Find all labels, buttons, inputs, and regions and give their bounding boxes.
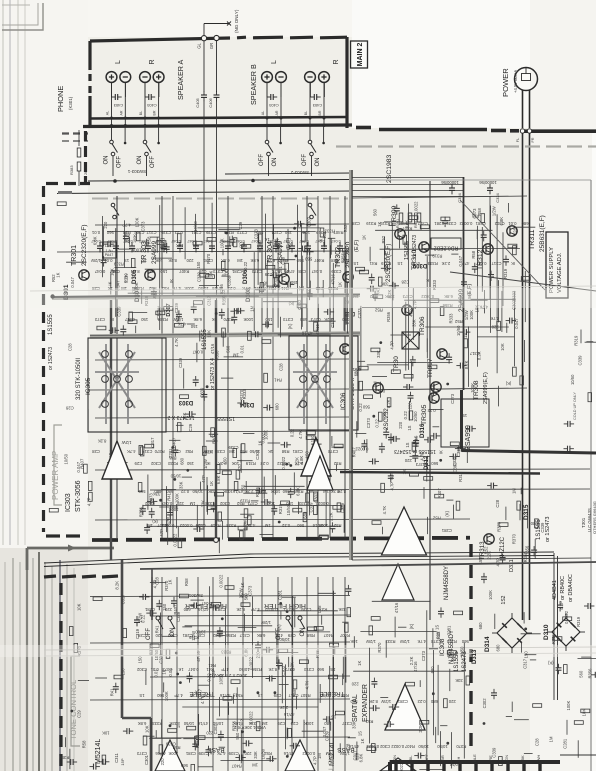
svg-text:8.2K: 8.2K <box>131 269 140 274</box>
svg-text:1M: 1M <box>232 352 238 357</box>
svg-text:TONE CONTROL: TONE CONTROL <box>69 680 78 740</box>
svg-text:BR: BR <box>153 110 157 115</box>
svg-text:R52: R52 <box>51 274 56 282</box>
svg-text:R407: R407 <box>231 764 242 769</box>
svg-text:680: 680 <box>179 457 184 465</box>
svg-text:150: 150 <box>459 413 467 418</box>
svg-text:1S2473 X 2: 1S2473 X 2 <box>167 414 194 420</box>
svg-text:0.01: 0.01 <box>91 230 100 235</box>
svg-text:+4.5V 80mA: +4.5V 80mA <box>513 70 518 93</box>
svg-text:C373: C373 <box>162 667 173 672</box>
svg-text:10000/56: 10000/56 <box>479 180 497 185</box>
svg-text:4D4B41: 4D4B41 <box>552 580 558 600</box>
svg-text:680: 680 <box>430 699 438 704</box>
svg-text:8.2K: 8.2K <box>268 667 277 672</box>
svg-text:R356: R356 <box>588 668 593 679</box>
svg-text:D313: D313 <box>472 649 478 664</box>
svg-text:C317: C317 <box>341 721 352 726</box>
svg-text:10K: 10K <box>206 330 211 338</box>
svg-text:560: 560 <box>431 461 439 466</box>
svg-text:4.7P: 4.7P <box>389 341 394 350</box>
svg-text:OFF: OFF <box>117 156 123 168</box>
svg-text:C373: C373 <box>237 230 248 235</box>
svg-text:R356: R356 <box>551 633 556 644</box>
svg-text:(K): (K) <box>274 238 279 244</box>
svg-text:47/16: 47/16 <box>331 273 336 284</box>
svg-text:C373: C373 <box>94 317 105 322</box>
svg-text:C339: C339 <box>178 357 183 368</box>
svg-text:(NG ONLY): (NG ONLY) <box>234 9 239 33</box>
svg-text:4.7P: 4.7P <box>313 756 318 765</box>
svg-text:R319: R319 <box>503 268 508 279</box>
svg-text:150: 150 <box>186 461 194 466</box>
svg-text:C339: C339 <box>540 522 545 533</box>
svg-text:10/50: 10/50 <box>170 473 181 478</box>
svg-text:1/2W: 1/2W <box>491 206 496 216</box>
svg-text:MAIN 2: MAIN 2 <box>357 43 364 67</box>
svg-text:1M: 1M <box>373 381 378 387</box>
svg-text:R356: R356 <box>386 311 391 322</box>
svg-text:C317: C317 <box>491 261 502 266</box>
svg-text:10K: 10K <box>233 721 241 726</box>
svg-text:0.0022: 0.0022 <box>281 456 286 469</box>
svg-text:2.2K: 2.2K <box>441 261 450 266</box>
svg-text:IC306: IC306 <box>340 392 347 410</box>
svg-text:2.2K: 2.2K <box>486 551 491 560</box>
svg-text:0.047: 0.047 <box>201 601 212 606</box>
svg-text:IK: IK <box>319 238 324 242</box>
svg-text:PA47: PA47 <box>105 253 114 257</box>
svg-text:47/16: 47/16 <box>315 323 320 334</box>
svg-text:IC305: IC305 <box>85 377 92 395</box>
svg-text:GL: GL <box>197 43 202 49</box>
svg-text:220: 220 <box>408 402 413 410</box>
svg-text:C339: C339 <box>214 449 225 454</box>
svg-text:320 STK-1050II: 320 STK-1050II <box>76 358 82 400</box>
svg-text:0.047: 0.047 <box>70 276 75 287</box>
svg-text:R319: R319 <box>223 230 234 235</box>
svg-text:8.2K: 8.2K <box>369 699 378 704</box>
svg-text:RE: RE <box>488 755 493 761</box>
svg-text:C28: C28 <box>65 405 73 410</box>
svg-text:560: 560 <box>235 732 240 740</box>
svg-text:OFF: OFF <box>259 154 265 166</box>
svg-text:D314: D314 <box>484 636 491 652</box>
svg-text:4.7P: 4.7P <box>174 693 183 698</box>
svg-text:2.2K: 2.2K <box>294 461 303 466</box>
svg-text:8.2K: 8.2K <box>476 351 481 360</box>
svg-text:2SA999: 2SA999 <box>465 425 472 450</box>
svg-text:C373: C373 <box>357 308 362 319</box>
svg-text:C373: C373 <box>431 639 442 644</box>
svg-text:R41: R41 <box>110 688 115 696</box>
svg-text:2.2K: 2.2K <box>418 724 423 733</box>
svg-text:C29: C29 <box>134 461 142 466</box>
svg-text:33K: 33K <box>411 319 416 327</box>
svg-text:25B631(E,F): 25B631(E,F) <box>539 215 546 252</box>
svg-text:560: 560 <box>362 404 370 409</box>
svg-text:680: 680 <box>275 403 280 411</box>
svg-text:0.0022: 0.0022 <box>264 607 277 612</box>
svg-text:R41: R41 <box>167 492 172 500</box>
svg-text:R52: R52 <box>436 631 441 639</box>
svg-text:33K: 33K <box>248 721 256 726</box>
svg-text:1/2W: 1/2W <box>261 620 271 625</box>
svg-text:ON: ON <box>392 755 397 761</box>
svg-text:10K: 10K <box>155 258 163 263</box>
svg-text:C281: C281 <box>397 699 408 704</box>
svg-text:1K: 1K <box>268 449 273 454</box>
svg-text:0.22: 0.22 <box>358 403 363 412</box>
svg-text:C281: C281 <box>168 448 173 459</box>
svg-text:1S: 1S <box>358 731 363 736</box>
svg-text:R370: R370 <box>164 580 169 591</box>
svg-text:R58: R58 <box>184 578 189 586</box>
svg-text:220: 220 <box>160 758 165 766</box>
svg-text:R41: R41 <box>369 261 377 266</box>
svg-text:R52: R52 <box>333 523 341 528</box>
svg-text:C302: C302 <box>482 698 487 709</box>
svg-text:R356: R356 <box>214 350 219 361</box>
svg-text:(K): (K) <box>505 381 511 386</box>
svg-text:R41: R41 <box>273 378 281 383</box>
svg-text:L: L <box>115 60 122 64</box>
svg-text:R333: R333 <box>448 313 453 324</box>
svg-text:10/50: 10/50 <box>437 744 448 749</box>
svg-text:150: 150 <box>342 317 350 322</box>
svg-text:C317: C317 <box>142 449 153 454</box>
svg-text:33K: 33K <box>455 678 463 683</box>
svg-text:15P: 15P <box>120 758 125 765</box>
svg-text:6.8K: 6.8K <box>193 317 202 322</box>
svg-text:C339: C339 <box>446 221 457 226</box>
svg-text:C403: C403 <box>146 103 156 108</box>
svg-text:680: 680 <box>154 489 162 494</box>
svg-text:C29: C29 <box>264 272 272 277</box>
svg-text:1K: 1K <box>337 282 342 287</box>
svg-text:100K: 100K <box>488 590 493 600</box>
svg-text:1K: 1K <box>431 384 436 389</box>
svg-text:100K: 100K <box>175 493 180 503</box>
svg-text:0.22: 0.22 <box>427 408 436 413</box>
svg-text:100K: 100K <box>131 247 141 252</box>
svg-text:C373: C373 <box>251 269 262 274</box>
svg-text:GN: GN <box>504 755 509 761</box>
svg-text:1S1555: 1S1555 <box>454 651 460 672</box>
svg-text:10K: 10K <box>231 461 239 466</box>
svg-text:220: 220 <box>186 258 194 263</box>
svg-text:150: 150 <box>111 269 119 274</box>
svg-text:4.7K: 4.7K <box>127 449 136 454</box>
svg-text:C373: C373 <box>421 650 426 661</box>
svg-text:10K: 10K <box>176 243 184 248</box>
svg-text:BK: BK <box>520 755 525 761</box>
svg-text:C281: C281 <box>182 633 193 638</box>
svg-text:R41: R41 <box>206 667 214 672</box>
svg-text:R356: R356 <box>59 755 70 760</box>
svg-text:BL: BL <box>304 111 308 115</box>
svg-text:100K: 100K <box>220 238 225 248</box>
svg-text:C28: C28 <box>495 499 500 507</box>
svg-text:C403: C403 <box>268 103 278 108</box>
svg-text:1/2W: 1/2W <box>340 751 350 756</box>
svg-text:H: H <box>456 756 461 759</box>
svg-text:10K: 10K <box>302 230 310 235</box>
svg-text:(K): (K) <box>287 323 292 329</box>
svg-text:C281: C281 <box>185 751 196 756</box>
svg-text:R370: R370 <box>206 253 211 264</box>
svg-text:0.22: 0.22 <box>243 261 248 270</box>
svg-text:C28: C28 <box>197 633 205 638</box>
svg-text:R52: R52 <box>264 751 272 756</box>
svg-text:1/2W: 1/2W <box>366 639 376 644</box>
svg-text:SPEAKER B: SPEAKER B <box>249 64 258 105</box>
svg-text:150: 150 <box>121 668 126 676</box>
svg-text:D312: D312 <box>424 455 430 470</box>
svg-text:1K: 1K <box>142 258 147 263</box>
svg-text:RD6.2EB2: RD6.2EB2 <box>434 245 459 251</box>
svg-text:33K: 33K <box>178 481 183 489</box>
svg-text:4.7K: 4.7K <box>217 751 226 756</box>
svg-text:0.0022: 0.0022 <box>564 610 569 623</box>
svg-text:R407: R407 <box>80 458 85 469</box>
svg-text:R52: R52 <box>235 693 243 698</box>
svg-text:C317: C317 <box>239 633 250 638</box>
svg-text:1S1555: 1S1555 <box>217 415 235 421</box>
svg-text:47/16: 47/16 <box>210 343 215 354</box>
svg-text:or RB40C: or RB40C <box>560 576 566 600</box>
svg-text:8.2K: 8.2K <box>337 489 346 494</box>
svg-text:0.047: 0.047 <box>514 318 519 329</box>
svg-text:560: 560 <box>461 639 469 644</box>
svg-text:C302: C302 <box>134 230 145 235</box>
svg-text:R58: R58 <box>82 740 87 748</box>
svg-text:1K: 1K <box>360 738 365 743</box>
svg-text:C339: C339 <box>195 523 206 528</box>
svg-text:10K: 10K <box>350 639 358 644</box>
svg-text:R52: R52 <box>333 461 341 466</box>
svg-text:560: 560 <box>256 230 264 235</box>
svg-text:POWER: POWER <box>501 68 510 97</box>
svg-text:R52: R52 <box>381 235 386 243</box>
svg-text:10/50: 10/50 <box>192 489 203 494</box>
svg-text:1/2W: 1/2W <box>91 258 101 263</box>
svg-text:C302: C302 <box>167 633 178 638</box>
svg-text:1S: 1S <box>139 693 144 698</box>
svg-text:10K: 10K <box>76 603 81 611</box>
svg-text:C339: C339 <box>578 355 583 366</box>
svg-text:47P: 47P <box>409 309 414 317</box>
svg-text:0.0022: 0.0022 <box>405 240 410 253</box>
svg-text:AR: AR <box>275 110 279 115</box>
svg-text:220: 220 <box>404 458 412 463</box>
svg-text:C317: C317 <box>150 437 155 448</box>
svg-text:33K: 33K <box>169 721 177 726</box>
svg-text:C29: C29 <box>277 721 285 726</box>
svg-text:M5214L: M5214L <box>95 739 102 764</box>
svg-text:0.22: 0.22 <box>417 699 426 704</box>
svg-text:0.01: 0.01 <box>240 345 245 354</box>
svg-text:WH: WH <box>536 755 541 762</box>
svg-text:IC303: IC303 <box>65 493 72 512</box>
svg-text:220: 220 <box>164 607 172 612</box>
svg-text:100K: 100K <box>168 751 178 756</box>
svg-text:R52: R52 <box>239 449 247 454</box>
svg-text:47P: 47P <box>201 475 206 483</box>
svg-text:IK: IK <box>212 317 216 322</box>
svg-text:33K: 33K <box>376 350 381 358</box>
svg-text:R356: R356 <box>139 506 144 517</box>
svg-text:L301: L301 <box>105 244 113 248</box>
svg-text:4.7P: 4.7P <box>383 251 388 260</box>
svg-text:100K: 100K <box>223 489 233 494</box>
svg-text:C28: C28 <box>330 258 338 263</box>
svg-text:6.8K: 6.8K <box>216 475 221 484</box>
svg-text:SPATIAL: SPATIAL <box>352 694 359 722</box>
svg-text:100K: 100K <box>566 701 571 711</box>
svg-text:C403: C403 <box>113 103 123 108</box>
svg-text:C339: C339 <box>199 387 204 398</box>
svg-text:C317: C317 <box>353 750 358 761</box>
svg-text:C28: C28 <box>68 343 73 351</box>
svg-text:4.7K: 4.7K <box>490 316 499 321</box>
svg-text:560: 560 <box>316 667 324 672</box>
svg-text:1K: 1K <box>209 751 214 756</box>
svg-text:D306: D306 <box>243 269 249 284</box>
svg-text:(E,F): (E,F) <box>354 240 360 252</box>
svg-text:or DBA40C: or DBA40C <box>568 574 574 602</box>
svg-text:C28: C28 <box>280 256 285 264</box>
svg-text:560: 560 <box>373 208 378 216</box>
svg-text:IK: IK <box>110 317 114 322</box>
svg-text:0.047: 0.047 <box>188 667 199 672</box>
svg-text:100K: 100K <box>243 317 253 322</box>
svg-text:C281: C281 <box>434 221 445 226</box>
svg-text:150: 150 <box>190 324 198 329</box>
svg-text:C281: C281 <box>292 449 303 454</box>
svg-text:T301: T301 <box>581 517 586 528</box>
svg-text:680: 680 <box>300 317 308 322</box>
svg-text:10/50: 10/50 <box>570 374 575 385</box>
svg-text:FL: FL <box>516 138 520 142</box>
svg-text:R319: R319 <box>113 262 124 267</box>
svg-text:C29: C29 <box>76 710 81 718</box>
svg-text:1K: 1K <box>402 469 407 474</box>
svg-text:R370: R370 <box>512 533 517 544</box>
svg-text:1/2W: 1/2W <box>239 588 244 598</box>
svg-text:TR311: TR311 <box>529 229 536 250</box>
svg-text:R319: R319 <box>210 523 221 528</box>
svg-text:0.22: 0.22 <box>222 267 227 276</box>
svg-text:C28: C28 <box>155 576 160 584</box>
svg-text:(K): (K) <box>547 661 553 666</box>
svg-text:8.2K: 8.2K <box>464 360 469 369</box>
svg-text:2.2K: 2.2K <box>329 512 334 521</box>
svg-text:COLD UP ONLY: COLD UP ONLY <box>573 392 577 420</box>
svg-text:1K: 1K <box>361 235 366 240</box>
svg-text:1M: 1M <box>229 449 235 454</box>
svg-text:10/50: 10/50 <box>249 449 260 454</box>
svg-text:2.2K: 2.2K <box>279 705 288 710</box>
svg-text:1S: 1S <box>258 693 263 698</box>
svg-text:C317: C317 <box>121 594 126 605</box>
svg-text:C373: C373 <box>304 667 315 672</box>
svg-text:BLE: BLE <box>472 754 477 762</box>
svg-text:10/50: 10/50 <box>320 693 331 698</box>
svg-text:(K301): (K301) <box>68 96 73 110</box>
svg-text:R407: R407 <box>523 552 528 563</box>
svg-text:560: 560 <box>156 693 164 698</box>
svg-text:R52: R52 <box>374 308 382 313</box>
svg-text:0.0022: 0.0022 <box>413 201 418 214</box>
svg-text:C311: C311 <box>114 752 119 762</box>
svg-text:220: 220 <box>351 682 359 687</box>
svg-text:0.047: 0.047 <box>192 350 203 355</box>
svg-text:R: R <box>149 59 156 64</box>
svg-text:OFF: OFF <box>150 156 156 168</box>
svg-text:C373: C373 <box>283 317 294 322</box>
svg-text:1K: 1K <box>209 481 214 486</box>
svg-text:(K): (K) <box>444 510 449 516</box>
svg-text:R319: R319 <box>293 489 304 494</box>
svg-text:6.8K: 6.8K <box>92 236 97 245</box>
svg-text:R58: R58 <box>471 250 476 258</box>
svg-text:10K: 10K <box>102 731 110 736</box>
svg-text:C339: C339 <box>198 751 209 756</box>
svg-text:47P: 47P <box>462 261 470 266</box>
svg-text:C373: C373 <box>271 230 282 235</box>
svg-text:C302: C302 <box>379 744 390 749</box>
svg-text:220: 220 <box>448 699 456 704</box>
svg-text:0.0022: 0.0022 <box>459 221 472 226</box>
svg-text:R407: R407 <box>157 523 168 528</box>
svg-text:680: 680 <box>183 607 191 612</box>
svg-text:10/50: 10/50 <box>456 325 461 336</box>
svg-text:100K: 100K <box>469 310 474 320</box>
svg-text:or 1S2473: or 1S2473 <box>545 517 551 542</box>
svg-text:OTHERS G6643G: OTHERS G6643G <box>592 501 596 534</box>
svg-text:R407: R407 <box>179 269 190 274</box>
svg-text:C281: C281 <box>144 607 155 612</box>
svg-text:0.22: 0.22 <box>260 461 269 466</box>
svg-text:C28: C28 <box>137 633 145 638</box>
svg-text:C29: C29 <box>146 269 154 274</box>
svg-text:(K): (K) <box>379 389 385 394</box>
svg-text:or 1S2473: or 1S2473 <box>412 235 418 258</box>
svg-text:4.7P: 4.7P <box>389 482 394 491</box>
svg-text:R319: R319 <box>245 461 256 466</box>
svg-text:0.047: 0.047 <box>94 269 105 274</box>
svg-text:1K: 1K <box>240 582 245 587</box>
svg-text:HZ12C: HZ12C <box>500 536 506 556</box>
svg-text:C373: C373 <box>140 221 145 232</box>
svg-text:R319: R319 <box>574 335 579 346</box>
svg-text:R52: R52 <box>432 516 440 521</box>
svg-text:100K: 100K <box>318 523 328 528</box>
svg-text:0.0022: 0.0022 <box>179 523 192 528</box>
svg-text:R58: R58 <box>341 693 349 698</box>
svg-text:220: 220 <box>155 633 163 638</box>
svg-text:1/2W: 1/2W <box>381 699 391 704</box>
svg-text:1K: 1K <box>257 440 262 445</box>
svg-text:PHONE: PHONE <box>56 86 65 112</box>
svg-text:0.0022: 0.0022 <box>355 447 368 452</box>
svg-text:R58: R58 <box>306 633 314 638</box>
svg-text:47/16: 47/16 <box>283 751 294 756</box>
svg-text:R370: R370 <box>456 744 467 749</box>
svg-text:C403: C403 <box>312 103 322 108</box>
svg-text:1S: 1S <box>463 333 468 338</box>
